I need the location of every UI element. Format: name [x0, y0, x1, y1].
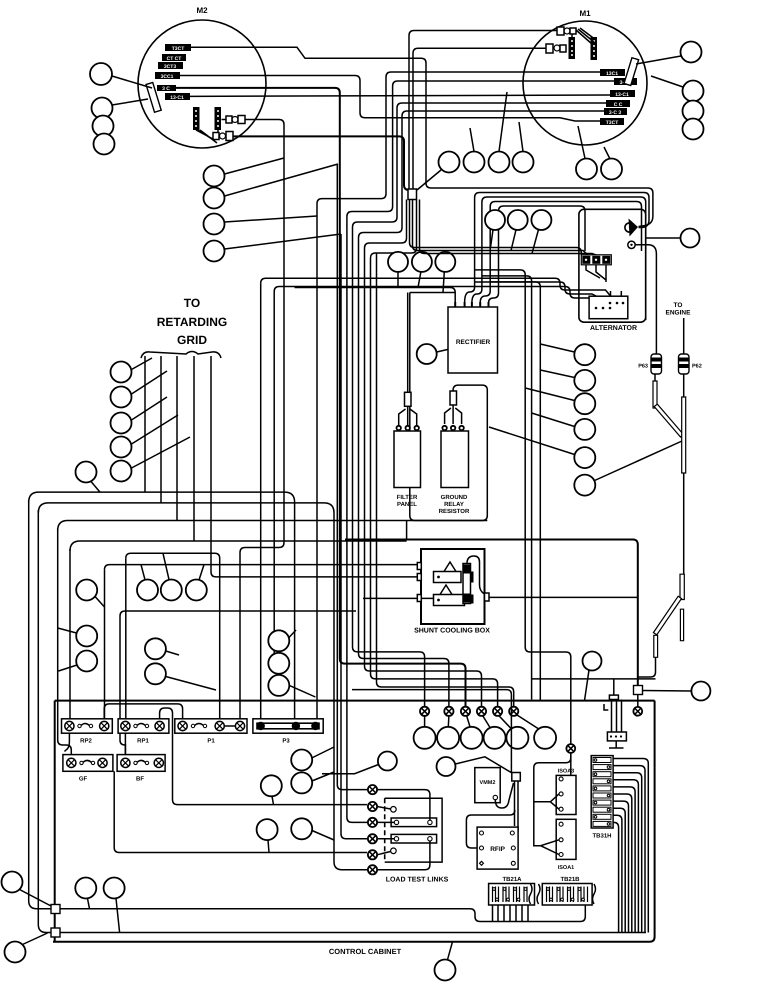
- M1-33 wire to cascade c5: [359, 111, 605, 707]
- cable double-bar lower: [654, 635, 658, 657]
- M2 plug P-lower: [213, 132, 233, 141]
- shunt bus bar: [463, 564, 474, 604]
- M2 strip-to-plug tie wires: [196, 130, 218, 143]
- retarding grid wire 5: [211, 356, 417, 577]
- wire hex3 to bar1 left: [377, 821, 394, 823]
- wire hex1 to bar1 right: [377, 790, 430, 820]
- callout stems: [132, 358, 191, 468]
- VMM2 wire loop: [495, 783, 513, 808]
- svg-text:C C: C C: [614, 102, 623, 108]
- svg-text:RP1: RP1: [137, 738, 149, 745]
- TB21B strip: [537, 884, 596, 906]
- M1 brush bar: [624, 58, 639, 86]
- motor M1 circle: [523, 21, 647, 145]
- wire dot to P63: [635, 245, 656, 354]
- svg-text:RECTIFIER: RECTIFIER: [456, 339, 491, 346]
- alternator terminal block row: [581, 255, 611, 265]
- cable tail wire: [638, 657, 656, 677]
- svg-text:TO: TO: [184, 296, 200, 310]
- callout line to node: [225, 216, 318, 222]
- svg-text:RESISTOR: RESISTOR: [439, 508, 470, 515]
- TB21A strip: [489, 884, 535, 906]
- svg-text:ENGINE: ENGINE: [666, 310, 692, 317]
- link small terminal lower: [391, 848, 397, 854]
- shunt right stub terminal: [485, 593, 490, 601]
- shunt output wire right: [489, 596, 638, 598]
- fuse F-grr: [450, 390, 457, 405]
- inner cabinet box top edge: [55, 700, 655, 702]
- cable P63 diagonal double: [654, 404, 683, 437]
- callout circle bottom-left 1: [2, 872, 23, 893]
- TB21A pin wires: [493, 905, 529, 922]
- svg-text:13·C1: 13·C1: [615, 92, 629, 98]
- M1 plug P-upper: [557, 27, 576, 35]
- svg-text:M2: M2: [196, 6, 208, 15]
- wire M2-3CC1 to M1-T3CT: [179, 76, 600, 122]
- terminal strip P3 with bus bar: [253, 719, 323, 733]
- M1 terminal box 13-C1: [610, 90, 635, 98]
- callout circles trio y590: [137, 580, 158, 601]
- cascade c6 wire: [365, 200, 482, 708]
- callout stem: [448, 942, 453, 960]
- bottom rail y909 with step: [56, 905, 586, 922]
- callout stems: [578, 126, 610, 159]
- callout circle mid-left 86-590: [76, 580, 97, 601]
- terminal strip P1: [175, 719, 247, 733]
- rectifier wire T4 to alternator block: [480, 202, 641, 304]
- retarding grid wire 3: [176, 356, 178, 521]
- M2 terminal strip B: [215, 107, 222, 130]
- callout diagonal to circle: [594, 441, 683, 481]
- callout stems: [491, 230, 539, 254]
- callout line: [112, 99, 148, 105]
- wire RP2R hook to P1L: [104, 704, 182, 719]
- wire M2-3C down long vertical: [176, 88, 466, 707]
- wire H503 left bundle: [38, 503, 367, 870]
- M1 plug-to-strip tie wires: [572, 28, 596, 44]
- retarding grid wire 1: [144, 356, 146, 492]
- rectifier wire T3 to alternator dot: [472, 197, 646, 320]
- shunt element upper: [434, 562, 462, 583]
- wire P62 to cable: [683, 374, 685, 397]
- inner cabinet right edge and outer bottom: [53, 701, 655, 942]
- cable double-bar upper: [680, 574, 684, 599]
- svg-text:ALTERNATOR: ALTERNATOR: [590, 325, 637, 332]
- wire RP1R hook to LT feed: [160, 708, 367, 805]
- callout stems: [470, 92, 523, 152]
- filter panel top terminals: [397, 426, 419, 430]
- link bar lower: [391, 834, 437, 843]
- wire hex4 to bar2 left: [377, 838, 394, 840]
- callout line: [23, 933, 48, 945]
- wire long vertical 274 from alternator feed: [274, 287, 621, 299]
- svg-text:RETARDING: RETARDING: [157, 315, 227, 329]
- wire hex6 to bar2 right: [377, 841, 430, 870]
- callout circle right of alternator: [681, 229, 700, 248]
- alternator dot terminal: [628, 241, 635, 248]
- cable diagonal double: [653, 596, 681, 635]
- callout circles pair x86: [76, 626, 97, 647]
- wire H520 to enclosure bottom: [58, 521, 488, 531]
- hex to circle stems: [425, 715, 538, 729]
- alternator relay feed wire 3: [475, 282, 596, 296]
- callout stems: [88, 898, 120, 932]
- callout stem: [585, 670, 590, 701]
- brace under label: [141, 352, 221, 359]
- svg-text:FILTER: FILTER: [397, 494, 418, 501]
- connector down wires to RFIP: [513, 781, 518, 833]
- link bar upper: [391, 818, 437, 827]
- terminal strip RP1: [118, 719, 169, 733]
- link small terminal upper: [391, 807, 397, 813]
- callout circles retarding grid: [111, 362, 132, 383]
- callout circles stack left of M2: [92, 98, 113, 119]
- callout line: [646, 237, 681, 239]
- junction square: [634, 686, 643, 695]
- svg-text:P63: P63: [638, 364, 648, 370]
- callout circle LT top: [378, 752, 397, 771]
- M1 terminal box C-C: [606, 100, 630, 108]
- M2 terminal box CT-CT: [162, 54, 186, 62]
- connector P63: [638, 354, 661, 374]
- callout circles above rectifier: [388, 252, 408, 272]
- svg-text:LOAD TEST LINKS: LOAD TEST LINKS: [386, 877, 449, 884]
- wire H611 run: [120, 611, 356, 616]
- junction square A: [51, 905, 60, 914]
- M2 plug P-upper: [222, 116, 246, 124]
- rectifier wire T2 to alternator horn: [465, 193, 649, 304]
- callout circle bottom-left 2: [5, 942, 26, 963]
- shunt hex terminal row: [420, 707, 518, 716]
- svg-text:T3CT: T3CT: [172, 46, 185, 52]
- wire BF vertical to LT feed: [114, 771, 367, 852]
- shunt left stub terminals: [417, 563, 421, 602]
- callout circles right-below M1: [576, 159, 597, 180]
- relay ground stub: [609, 741, 624, 748]
- callout circle far right: [691, 682, 710, 701]
- wire P63 to cable: [654, 374, 656, 381]
- ground relay resistor body: [441, 431, 469, 488]
- callout line: [651, 76, 683, 87]
- callout circle left of M2: [90, 63, 112, 85]
- harness connector J1: [408, 189, 417, 200]
- harness riser pair to M1 plugs: [409, 31, 557, 190]
- svg-text:RELAY: RELAY: [444, 501, 464, 508]
- inner cabinet left edge: [54, 701, 56, 942]
- callout stems: [58, 628, 77, 671]
- callout circle VMM2: [437, 757, 456, 776]
- M1-3C1 wire to cascade c3: [347, 81, 614, 822]
- wire RP2L to GF: [65, 733, 126, 754]
- load test links box: [385, 798, 442, 862]
- svg-text:TO: TO: [674, 302, 683, 309]
- retarding grid wire 4: [193, 356, 195, 541]
- callout line to node: [225, 164, 339, 196]
- callout circles below M1: [439, 152, 460, 173]
- wire diag-vert to LT hex4: [341, 234, 367, 839]
- callout line: [636, 56, 681, 64]
- circle64 callout: [583, 652, 602, 671]
- callout circles above alternator: [485, 210, 505, 230]
- M2 terminal box 3CC1: [155, 72, 180, 80]
- M2 terminal box 3C: [157, 85, 176, 92]
- wire v570 to ISOA3: [570, 753, 572, 776]
- M2 terminal box 13C1: [165, 93, 190, 101]
- callout line: [322, 765, 379, 774]
- alternator connector box: [589, 291, 628, 319]
- wire v525: [475, 270, 571, 762]
- callout circles stack right of M1: [683, 81, 704, 102]
- big circle row: [414, 727, 436, 749]
- wire M2-T3CT to alternator bundle: [190, 47, 653, 226]
- shunt input wire 3: [363, 597, 434, 599]
- callout stems: [289, 630, 315, 697]
- callout circles near P3: [291, 750, 312, 771]
- TB31H terminal stack: [591, 756, 613, 828]
- relay plug top: [609, 695, 618, 699]
- callout line to node: [225, 158, 285, 174]
- wire below enclosure to shunt rail: [406, 521, 408, 540]
- M1 terminal box 3C1: [614, 78, 637, 86]
- wire H539 shunt top rail to junction: [345, 540, 638, 686]
- svg-text:PANEL: PANEL: [397, 501, 417, 508]
- hex terminal on v570: [566, 744, 575, 753]
- callout stems: [268, 747, 334, 853]
- svg-text:ISOA3: ISOA3: [558, 769, 575, 775]
- alternator horn symbol: [625, 219, 638, 237]
- wire hex2 to small terminal: [377, 807, 391, 810]
- svg-text:RFIP: RFIP: [490, 846, 505, 853]
- svg-text:BF: BF: [136, 776, 144, 783]
- callout circle left of rectifier: [417, 344, 437, 364]
- svg-text:TB21B: TB21B: [560, 876, 580, 883]
- grr top terminals: [442, 426, 463, 430]
- M1 terminal strip B: [591, 37, 598, 60]
- wire H553 short: [126, 553, 220, 719]
- callout circles right column: [574, 344, 595, 365]
- M2 terminal box 3CT3: [158, 62, 183, 70]
- M2 terminal strip A: [193, 107, 200, 130]
- svg-text:CT CT: CT CT: [167, 56, 182, 62]
- terminal strip GF: [63, 755, 113, 772]
- callout line harness to circle: [417, 170, 441, 190]
- svg-text:3CT3: 3CT3: [164, 64, 176, 70]
- ISOA chevron wire: [534, 758, 571, 855]
- cascade c7 wire: [371, 200, 498, 708]
- svg-text:GROUND: GROUND: [441, 494, 468, 501]
- callout line to connector: [455, 757, 512, 773]
- cable single section: [683, 473, 685, 574]
- M1 terminal box 3-3: [604, 108, 627, 116]
- callout stem: [95, 597, 105, 608]
- wire long vertical to P3 left from alternator feed: [261, 278, 611, 296]
- svg-text:CONTROL CABINET: CONTROL CABINET: [329, 947, 402, 956]
- callout stems: [141, 553, 204, 580]
- callout stems: [166, 651, 216, 690]
- svg-text:TB21A: TB21A: [502, 876, 522, 883]
- svg-text:T3CT: T3CT: [606, 120, 619, 126]
- M2 terminal box T3CT: [165, 44, 191, 52]
- terminal strip RP2: [62, 719, 113, 733]
- TB31H harness wires: [613, 759, 648, 933]
- relay hook: [604, 704, 608, 710]
- svg-text:P62: P62: [692, 364, 702, 370]
- filter panel cap wires: [399, 406, 417, 425]
- rectifier enclosure wall: [410, 293, 488, 521]
- svg-text:TB31H: TB31H: [592, 833, 611, 840]
- svg-text:3CC1: 3CC1: [161, 74, 174, 80]
- M2 brush bar: [146, 82, 161, 112]
- callout line to node: [225, 234, 342, 249]
- callout circles pair x155: [145, 638, 166, 659]
- wire H492 left bundle to P3 mid: [29, 492, 295, 719]
- callout circle left: [76, 462, 97, 483]
- svg-text:SHUNT COOLING BOX: SHUNT COOLING BOX: [414, 628, 490, 635]
- callout circle right of M1: [681, 42, 702, 63]
- wire junction to hex: [637, 695, 639, 708]
- cable right stub double-bar: [680, 609, 683, 641]
- M1 terminal box 13C1: [600, 69, 625, 77]
- terminal strip BF: [117, 755, 165, 772]
- junction square B: [51, 928, 60, 937]
- M1-13C1 wire to cascade c2: [317, 72, 600, 719]
- callout circles above rail: [75, 878, 96, 899]
- callout circles mid-left column x279: [268, 630, 289, 651]
- svg-text:13C1: 13C1: [606, 71, 618, 77]
- rectifier wire T5: [489, 206, 586, 303]
- alternator block jumper wires: [586, 265, 606, 282]
- alternator enclosure: [579, 209, 646, 322]
- shunt internal wire: [467, 556, 485, 594]
- wire H541: [70, 541, 407, 551]
- M1-CC wire to cascade c4: [353, 103, 607, 707]
- shunt cooling box: [421, 549, 485, 624]
- svg-text:3 C: 3 C: [162, 86, 170, 92]
- rectifier terminal stubs: [455, 302, 488, 307]
- retarding grid wire 2: [160, 356, 162, 503]
- wire hex5 to small terminal: [377, 852, 391, 855]
- rectifier U1: [448, 307, 498, 373]
- load test hex terminals column: [368, 785, 377, 874]
- hex terminal: [633, 707, 642, 716]
- svg-text:GRID: GRID: [177, 333, 207, 347]
- svg-text:M1: M1: [579, 9, 591, 18]
- filter panel body: [394, 431, 421, 488]
- callout line: [112, 76, 152, 88]
- svg-text:RP2: RP2: [80, 738, 92, 745]
- callout stem: [437, 349, 448, 352]
- fuse F-filter: [405, 293, 412, 407]
- bottom rail y932: [56, 932, 647, 934]
- motor M2 circle: [138, 20, 266, 148]
- M1 terminal strip A: [569, 37, 576, 59]
- cable P62 double-bar long: [682, 397, 686, 473]
- M1 plug P-lower: [546, 44, 566, 53]
- callout stems right column: [489, 344, 575, 455]
- wire to P62: [683, 318, 685, 354]
- wire hex6 feed: [377, 253, 514, 707]
- callout line: [20, 890, 52, 907]
- ISOA3 box: [556, 769, 576, 815]
- shunt element lower: [434, 585, 465, 606]
- RFIP C-loop wire: [466, 810, 514, 848]
- M1 terminal box T3CT: [600, 118, 624, 126]
- wire v531: [482, 276, 532, 700]
- svg-text:ISOA1: ISOA1: [558, 865, 575, 871]
- callout stems: [398, 272, 444, 293]
- wire H689 to VMM2 connector: [352, 690, 511, 772]
- wire diag-vert to LT hex1: [337, 164, 367, 790]
- VMM2 box: [475, 768, 500, 803]
- rectifier feed wire T1: [295, 288, 456, 304]
- wire M2 plug lower to harness connector: [233, 136, 409, 190]
- cable P63 double-bar: [653, 381, 657, 408]
- callout stem: [91, 482, 100, 493]
- relay plug body wires: [612, 700, 622, 733]
- svg-text:3·C 3: 3·C 3: [609, 110, 621, 116]
- wire H564 to shunt terminal 1: [105, 565, 418, 570]
- RFIP box: [477, 827, 518, 869]
- connector P62: [679, 354, 702, 374]
- relay connector box: [607, 732, 626, 741]
- ISOA1 box: [556, 819, 576, 871]
- svg-text:P3: P3: [282, 738, 290, 745]
- grr cap wires: [445, 405, 462, 424]
- svg-text:VMM2: VMM2: [480, 780, 496, 786]
- svg-text:GF: GF: [79, 776, 88, 783]
- callout circles below M2: [204, 166, 225, 187]
- callout line: [643, 690, 692, 693]
- VMM2 connector block: [512, 773, 521, 782]
- relay plug wire from cable: [532, 679, 656, 695]
- wire M2-13C1 to M1-13C1: [190, 95, 610, 96]
- wire M2 plug upper to P1 right (jog route): [240, 120, 284, 720]
- callout circle below cabinet: [435, 960, 456, 981]
- wire long vertical 540: [490, 282, 540, 701]
- alternator feed wires from connector: [410, 200, 582, 256]
- svg-text:13·C1: 13·C1: [170, 95, 184, 101]
- svg-text:P1: P1: [207, 738, 215, 745]
